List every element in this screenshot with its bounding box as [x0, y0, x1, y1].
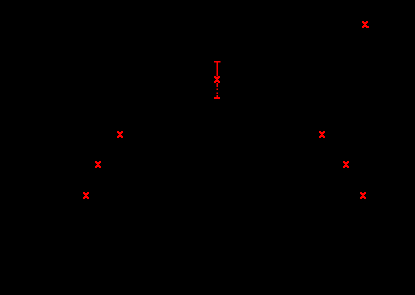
failed-link marker X4 (left chain, middle) [95, 161, 101, 168]
failed-link marker X6 (right chain, upper) [319, 131, 325, 138]
failed-link marker X5 (left chain, lower) [83, 192, 89, 199]
link L1 bottom node bar [214, 97, 220, 99]
failed-link marker X1 (top right) [362, 21, 369, 28]
wire: link L1 upper solid segment [216, 62, 218, 77]
failed-link marker X3 (left chain, upper) [117, 131, 123, 138]
failed-link marker X7 (right chain, middle) [343, 161, 349, 168]
failed-link marker X2 (on link L1) [214, 76, 220, 83]
wire: link L1 dashed lower segment [216, 83, 218, 97]
link L1 top node bar [214, 61, 220, 63]
failed-link marker X8 (right chain, lower) [360, 192, 366, 199]
